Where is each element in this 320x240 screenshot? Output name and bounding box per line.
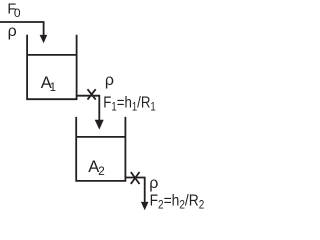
svg-text:ρ: ρ	[105, 72, 114, 89]
label F1=h1/R1	[103, 94, 156, 113]
svg-text:ρ: ρ	[149, 175, 158, 192]
wire outlet tank 2	[125, 178, 144, 203]
wire outlet tank 1	[77, 96, 100, 121]
arrowhead flow into tank 2	[95, 120, 104, 130]
wire feed inlet	[0, 22, 44, 35]
svg-text:F0: F0	[7, 2, 21, 21]
svg-text:ρ: ρ	[8, 23, 17, 40]
liquid level tank 2	[76, 136, 125, 138]
arrowhead outflow F2	[141, 202, 149, 210]
svg-text:A1: A1	[41, 74, 56, 94]
arrowhead feed into tank 1	[40, 35, 48, 43]
tank A2	[76, 117, 125, 181]
svg-text:A2: A2	[88, 158, 105, 178]
svg-text:F2=h2/R2: F2=h2/R2	[150, 191, 205, 211]
tank A1	[27, 35, 77, 99]
svg-text:F1=h1/R1: F1=h1/R1	[103, 94, 156, 113]
valve X1	[88, 89, 96, 99]
valve X2	[131, 172, 140, 184]
liquid level tank 1	[27, 54, 77, 56]
label F2=h2/R2	[150, 191, 205, 211]
